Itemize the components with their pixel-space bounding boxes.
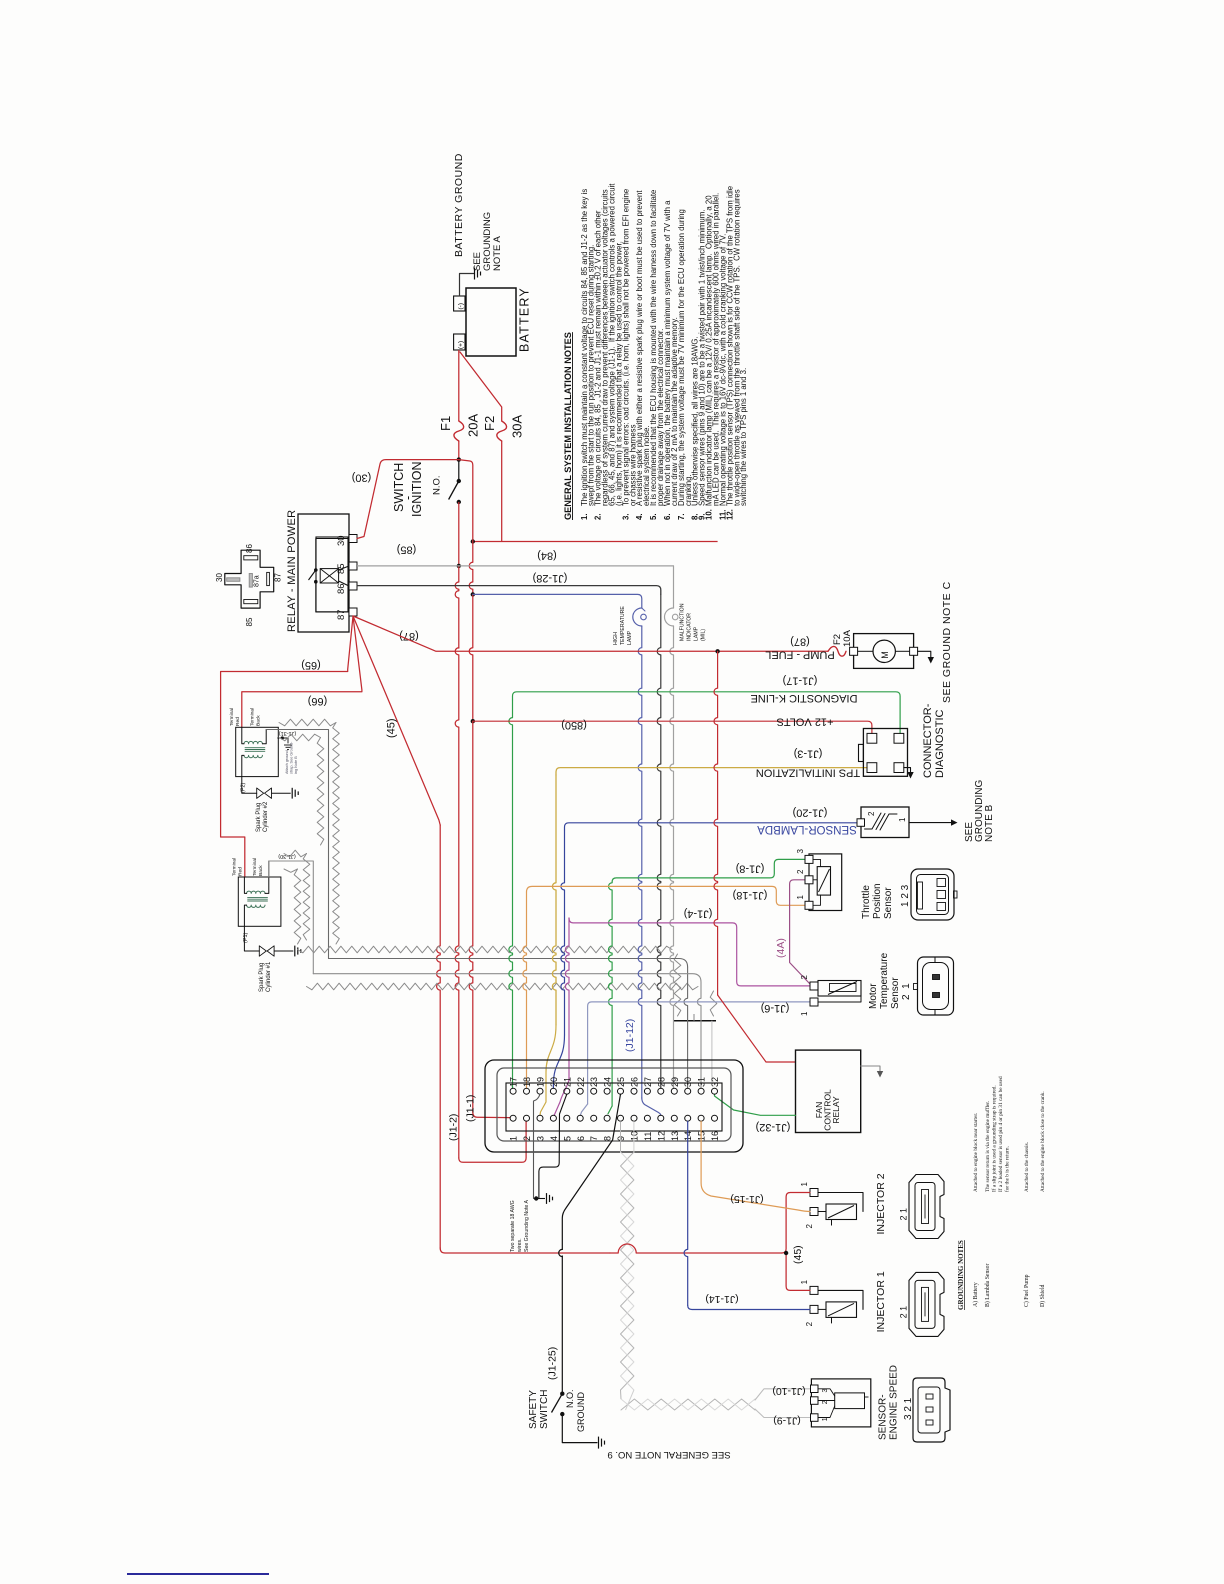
svg-text:Red: Red — [238, 867, 244, 876]
svg-text:NOTE B: NOTE B — [984, 804, 995, 842]
safety switch S2 — [560, 1392, 564, 1396]
svg-text:32: 32 — [710, 1077, 720, 1087]
svg-text:(J1-20): (J1-20) — [793, 807, 828, 819]
svg-text:13: 13 — [670, 1131, 680, 1141]
node F2 junction — [471, 539, 475, 543]
svg-text:Two separate 18 AWG: Two separate 18 AWG — [510, 1200, 516, 1252]
svg-text:3: 3 — [536, 1136, 546, 1141]
svg-text:2: 2 — [805, 1224, 814, 1229]
svg-text:5: 5 — [562, 1136, 572, 1141]
svg-text:25: 25 — [616, 1077, 626, 1087]
svg-text:10.: 10. — [705, 509, 714, 520]
spark plug gap cylinder 2 — [257, 788, 264, 798]
svg-text:ing Note B: ing Note B — [294, 756, 298, 774]
svg-text:8: 8 — [603, 1136, 613, 1141]
svg-text:B) Lambda Sensor: B) Lambda Sensor — [984, 1263, 991, 1307]
svg-text:SEE GROUND NOTE C: SEE GROUND NOTE C — [941, 581, 953, 703]
svg-text:(J1-10): (J1-10) — [772, 1385, 805, 1397]
svg-text:INDICATOR: INDICATOR — [687, 613, 693, 641]
svg-text:27: 27 — [643, 1077, 653, 1087]
svg-text:SENSOR-: SENSOR- — [878, 1394, 889, 1440]
svg-text:Cylinder #2: Cylinder #2 — [263, 801, 269, 832]
svg-text:strap. See Ground-: strap. See Ground- — [290, 741, 294, 774]
switch ignition S1 — [458, 460, 460, 481]
wire shield signal to pin31 — [313, 974, 701, 982]
svg-text:85: 85 — [336, 563, 347, 574]
svg-text:(J1-17): (J1-17) — [783, 675, 818, 687]
wire (J1-6) slate — [588, 1002, 810, 1104]
svg-text:(MIL): (MIL) — [701, 629, 707, 641]
svg-text:BATTERY: BATTERY — [518, 287, 532, 352]
svg-text:(J1-2): (J1-2) — [448, 1114, 460, 1141]
svg-text:RELAY: RELAY — [831, 1096, 841, 1124]
wire K-line green — [513, 692, 901, 734]
svg-text:MALFUNCTION: MALFUNCTION — [680, 603, 686, 641]
svg-text:During starting, the system vo: During starting, the system voltage must… — [677, 209, 686, 506]
wire F2 down to junction — [501, 441, 503, 542]
svg-text:Motor: Motor — [868, 983, 879, 1009]
svg-text:(J1-30): (J1-30) — [278, 853, 296, 859]
battery ground wire — [460, 274, 475, 297]
svg-text:85: 85 — [245, 617, 254, 626]
svg-text:20: 20 — [549, 1077, 559, 1087]
svg-text:LAMP: LAMP — [627, 630, 633, 645]
svg-text:Attached to engine block near: Attached to engine block near starter. — [973, 1113, 979, 1192]
svg-text:INJECTOR 2: INJECTOR 2 — [875, 1173, 887, 1234]
svg-text:Throttle: Throttle — [861, 885, 872, 919]
wire (30) relay to switch — [357, 460, 459, 539]
svg-text:7: 7 — [589, 1136, 599, 1141]
node pump/fan junction — [715, 649, 719, 653]
relay contact — [316, 539, 349, 571]
svg-text:4: 4 — [549, 1136, 559, 1141]
svg-text:BATTERY GROUND: BATTERY GROUND — [453, 153, 465, 257]
svg-text:12.: 12. — [725, 509, 734, 520]
wire (85)/(84) gray — [357, 565, 674, 567]
svg-text:24: 24 — [603, 1077, 613, 1087]
lamp MIL — [665, 608, 674, 626]
svg-text:Sensor: Sensor — [890, 977, 901, 1009]
svg-text:1: 1 — [509, 1136, 519, 1141]
fuse F2 30A — [497, 421, 507, 441]
svg-text:(J1-12): (J1-12) — [624, 1019, 636, 1052]
svg-text:(65): (65) — [301, 659, 321, 671]
svg-text:2.: 2. — [594, 513, 603, 520]
svg-text:1: 1 — [800, 1279, 809, 1284]
node ECU ground join — [534, 1196, 538, 1200]
svg-text:N.O.: N.O. — [565, 1389, 575, 1408]
spark plug gap cylinder 1 — [259, 946, 266, 956]
wire TPS INIT gold — [556, 768, 867, 775]
svg-text:Sensor: Sensor — [883, 887, 894, 919]
svg-text:(45): (45) — [792, 1245, 804, 1264]
svg-text:(J1-14): (J1-14) — [705, 1293, 738, 1305]
ground symbol battery — [474, 268, 476, 280]
wire lambda navy — [565, 823, 862, 830]
svg-text:Terminal: Terminal — [252, 858, 258, 876]
svg-text:SENSOR-LAMBDA: SENSOR-LAMBDA — [757, 823, 857, 835]
wire battery+ to F1 — [458, 350, 460, 421]
svg-text:(P1): (P1) — [243, 932, 249, 943]
svg-text:(J1-8): (J1-8) — [736, 863, 765, 875]
svg-text:PUMP - FUEL: PUMP - FUEL — [765, 649, 834, 661]
svg-text:7.: 7. — [677, 513, 686, 520]
svg-text:(J1-31): (J1-31) — [279, 730, 297, 736]
svg-text:(66): (66) — [308, 695, 328, 707]
battery B1 — [466, 288, 516, 356]
wire (4A) purple — [790, 880, 810, 984]
svg-text:(4A): (4A) — [775, 938, 787, 958]
wire magenta vertical to pin21 — [565, 918, 569, 1080]
svg-text:(J1-18): (J1-18) — [733, 889, 768, 901]
svg-text:SWITCH: SWITCH — [539, 1390, 550, 1429]
wire battery+ diagonal to F2 — [460, 352, 502, 421]
svg-text:(30): (30) — [352, 472, 372, 484]
svg-text:21: 21 — [562, 1077, 572, 1087]
motor temp connector icon — [918, 957, 954, 1015]
svg-text:wires.: wires. — [517, 1238, 523, 1252]
svg-text:2: 2 — [796, 869, 805, 874]
lamp high temperature — [633, 608, 642, 626]
wire gold vertical to pin3 — [552, 775, 556, 1025]
label (J1-32) done above ; bottom blue line — [127, 1573, 269, 1575]
svg-text:The sensor return is via the e: The sensor return is via the engine muff… — [984, 1101, 991, 1192]
node lamp tap — [471, 592, 475, 596]
svg-text:LAMP: LAMP — [694, 626, 700, 641]
svg-text:IGNITION: IGNITION — [410, 461, 424, 517]
svg-text:11: 11 — [643, 1132, 653, 1141]
svg-text:INJECTOR 1: INJECTOR 1 — [875, 1271, 887, 1332]
wire lamp blue return J1-12 — [638, 626, 642, 1098]
wire (J1-15) orange — [701, 1121, 810, 1211]
svg-text:(J1-1): (J1-1) — [465, 1095, 477, 1122]
wire (J1-14) navy — [684, 1121, 688, 1305]
svg-text:(+): (+) — [458, 341, 465, 349]
lambda ground arrow — [909, 822, 951, 824]
svg-text:3 2 1: 3 2 1 — [903, 1397, 914, 1420]
svg-text:5.: 5. — [649, 513, 658, 520]
svg-text:20A: 20A — [466, 414, 481, 437]
relay coil — [320, 569, 338, 583]
svg-text:for the b is the return.: for the b is the return. — [1004, 1146, 1011, 1192]
shield zigzag bus bottom — [307, 983, 699, 990]
svg-text:19: 19 — [536, 1077, 546, 1087]
wire lamp blue feed — [473, 594, 642, 608]
svg-text:26: 26 — [630, 1077, 640, 1087]
svg-text:F2: F2 — [482, 416, 497, 431]
svg-text:SWITCH: SWITCH — [392, 463, 406, 512]
svg-text:87: 87 — [274, 573, 283, 582]
svg-text:Attached to the engine block c: Attached to the engine block close to th… — [1040, 1091, 1046, 1192]
svg-text:Position: Position — [872, 883, 883, 919]
svg-text:Red: Red — [235, 717, 241, 726]
sensor engine speed B3 — [811, 1379, 870, 1427]
svg-text:Terminal: Terminal — [229, 708, 235, 726]
svg-text:TPS INITIALIZATION: TPS INITIALIZATION — [756, 767, 860, 779]
svg-text:Back: Back — [258, 865, 264, 876]
svg-text:31: 31 — [697, 1077, 707, 1087]
twisted pair speed sensor — [620, 1121, 622, 1153]
svg-text:12: 12 — [656, 1131, 666, 1141]
svg-text:6.: 6. — [663, 513, 672, 520]
wire shield signal to pin30 — [329, 959, 688, 968]
svg-text:(J1-4): (J1-4) — [684, 908, 713, 920]
wire orange vertical to pin18 — [523, 892, 527, 1088]
wire red1 down — [455, 566, 459, 648]
svg-text:2: 2 — [800, 975, 809, 980]
svg-text:6: 6 — [576, 1136, 586, 1141]
ECU connector J1 outer — [485, 1060, 743, 1152]
svg-text:2: 2 — [867, 811, 876, 816]
relay pin 87 — [349, 608, 357, 616]
svg-text:(P2): (P2) — [241, 782, 247, 793]
wire fan feed red — [714, 651, 718, 995]
svg-text:22: 22 — [576, 1077, 586, 1087]
svg-text:3: 3 — [796, 849, 805, 854]
svg-text:TEMPERATURE: TEMPERATURE — [620, 606, 626, 645]
wire (87) fuel pump feed — [353, 616, 828, 651]
svg-text:(J1-3): (J1-3) — [794, 748, 823, 760]
relay K1 RELAY - MAIN POWER box — [298, 514, 349, 632]
svg-text:28: 28 — [656, 1077, 666, 1087]
fan relay ground arrow — [861, 1066, 880, 1071]
wire 87 to (66) — [242, 616, 362, 727]
node (45) — [784, 1251, 788, 1255]
speed sensor straight leads — [755, 1389, 811, 1400]
svg-text:GROUNDING NOTES: GROUNDING NOTES — [957, 1240, 965, 1310]
wire safety switch J1-25 — [562, 1094, 620, 1249]
notes text block — [563, 183, 748, 520]
ground symbol ECU — [536, 1198, 545, 1200]
svg-text:F1: F1 — [438, 416, 453, 431]
svg-text:+12 VOLTS: +12 VOLTS — [777, 716, 834, 728]
node 850 tap — [471, 719, 475, 723]
ignition coil T1 — [238, 877, 281, 926]
wire (45) bus to injectors — [610, 1244, 782, 1253]
svg-text:Spark Plug: Spark Plug — [256, 803, 262, 832]
svg-text:10A: 10A — [842, 629, 853, 647]
svg-text:Terminal: Terminal — [232, 858, 238, 876]
svg-text:2 1: 2 1 — [899, 1208, 909, 1221]
svg-text:C) Fuel Pump: C) Fuel Pump — [1023, 1274, 1030, 1307]
svg-text:Back: Back — [256, 715, 262, 726]
svg-text:1 2 3: 1 2 3 — [900, 884, 911, 907]
ground spark plug 1 — [294, 946, 296, 957]
svg-text:switching the wires to TPS pin: switching the wires to TPS pins 1 and 3. — [739, 368, 748, 506]
speed sensor connector icon — [913, 1378, 950, 1442]
motor temperature sensor R3 — [810, 982, 818, 990]
svg-text:NOTE A: NOTE A — [492, 235, 503, 271]
svg-text:N.O.: N.O. — [432, 475, 443, 495]
wire MIL return to pin29 — [670, 626, 674, 1088]
svg-text:3.: 3. — [621, 513, 630, 520]
wire MIL feed from (84) — [673, 566, 675, 608]
svg-text:Spark Plug: Spark Plug — [259, 963, 265, 992]
shield drain stub — [711, 1021, 713, 1082]
svg-text:16: 16 — [710, 1131, 720, 1141]
svg-text:1: 1 — [898, 817, 907, 822]
wire coil1 signal — [269, 861, 314, 974]
throttle position sensor R2 — [809, 854, 842, 911]
svg-text:29: 29 — [670, 1077, 680, 1087]
svg-text:(J1-28): (J1-28) — [533, 572, 568, 584]
coil2 case ground — [278, 738, 288, 743]
shield termination bar — [673, 1020, 716, 1022]
wire red2 branch — [459, 460, 473, 542]
svg-text:SEE GENERAL NOTE NO. 9: SEE GENERAL NOTE NO. 9 — [607, 1449, 730, 1460]
wire pin19 ground hook — [534, 1094, 541, 1198]
svg-text:2: 2 — [522, 1136, 532, 1141]
sensor lambda B2 — [861, 807, 909, 838]
tps internal leads — [813, 859, 821, 866]
ECU pins row 1-16 — [510, 1115, 516, 1121]
svg-text:DIAGNOSTIC: DIAGNOSTIC — [934, 709, 946, 778]
svg-text:30A: 30A — [510, 415, 525, 438]
svg-text:(87): (87) — [790, 636, 810, 648]
svg-text:ENGINE SPEED: ENGINE SPEED — [889, 1365, 900, 1440]
fuse F2 10A — [828, 646, 846, 656]
svg-text:30: 30 — [683, 1077, 693, 1087]
svg-text:(850): (850) — [561, 719, 587, 731]
wire (J1-4) magenta — [569, 918, 810, 986]
wire 87 to (65) — [221, 616, 353, 877]
svg-text:(J1-25): (J1-25) — [547, 1347, 559, 1380]
wire (J1-18) orange — [527, 886, 806, 905]
wire pin21 ground — [536, 1094, 567, 1198]
wire red2 down — [469, 542, 473, 595]
fuel pump M1 — [854, 634, 914, 669]
ignition coil T2 — [236, 727, 279, 776]
svg-text:(84): (84) — [537, 550, 557, 562]
svg-text:CONNECTOR-: CONNECTOR- — [922, 703, 934, 778]
shield zigzag coil1 — [284, 850, 307, 857]
svg-text:87: 87 — [336, 609, 347, 620]
wire J1-28 vertical to pin28 — [657, 594, 661, 1088]
svg-text:2: 2 — [805, 1321, 814, 1326]
svg-text:23: 23 — [589, 1077, 599, 1087]
wire (J1-28) — [357, 586, 661, 595]
wire F2 bus right — [473, 541, 718, 543]
svg-text:Attach ground: Attach ground — [285, 750, 289, 774]
wire green2 vertical to pin8 — [608, 882, 612, 1106]
relay pin 86 — [349, 582, 357, 590]
svg-text:(-): (-) — [458, 303, 465, 310]
svg-text:(J1-6): (J1-6) — [761, 1002, 790, 1014]
svg-text:87a: 87a — [254, 575, 261, 587]
svg-text:Cylinder #1: Cylinder #1 — [266, 961, 272, 992]
svg-text:(45): (45) — [386, 718, 398, 738]
node switch top — [457, 457, 461, 461]
svg-text:A) Battery: A) Battery — [972, 1282, 979, 1307]
injector 1 — [810, 1286, 818, 1294]
pump ground arrow — [918, 651, 931, 657]
ECU pins row 17-32 — [510, 1088, 516, 1094]
wire 87 to (45) diagonal — [353, 616, 440, 825]
pump leads — [858, 650, 873, 652]
wire F1 to switch junction — [458, 441, 460, 460]
svg-text:86: 86 — [336, 583, 347, 594]
connector diagnostic J2 — [863, 729, 907, 777]
relay socket view — [225, 550, 274, 608]
svg-text:86: 86 — [245, 544, 254, 553]
svg-text:GENERAL SYSTEM INSTALLATION NO: GENERAL SYSTEM INSTALLATION NOTES — [563, 332, 573, 520]
wire (J1-8) green — [612, 859, 805, 882]
svg-text:4.: 4. — [635, 513, 644, 520]
tps connector icon — [911, 869, 954, 920]
svg-text:HIGH: HIGH — [613, 632, 619, 645]
svg-text:1: 1 — [800, 1011, 809, 1016]
svg-text:30: 30 — [336, 535, 347, 546]
svg-text:1.: 1. — [580, 513, 589, 520]
svg-text:DIAGNOSTIC K-LINE: DIAGNOSTIC K-LINE — [751, 692, 858, 704]
svg-text:2 1: 2 1 — [901, 983, 912, 1000]
svg-text:10: 10 — [630, 1131, 640, 1141]
fuse F1 20A — [454, 421, 464, 441]
fan control relay K2 — [796, 1050, 861, 1132]
svg-text:(J1-9): (J1-9) — [773, 1415, 800, 1427]
relay pin 30 — [349, 535, 357, 543]
shield zigzag bus top — [298, 946, 673, 953]
svg-text:Attached to the chassis.: Attached to the chassis. — [1024, 1142, 1030, 1192]
wire (45) vertical — [437, 825, 441, 1248]
svg-text:D) Shield: D) Shield — [1039, 1285, 1046, 1307]
wire red1 down to ECU J1-2 — [455, 648, 459, 1158]
wire (J1-32) green — [715, 1094, 796, 1115]
svg-text:(85): (85) — [397, 544, 417, 556]
svg-text:(J1-15): (J1-15) — [730, 1193, 763, 1205]
node 85 tap — [457, 564, 461, 568]
ground spark plug 2 — [291, 788, 293, 799]
wire red2 down to ECU J1-1 — [469, 721, 473, 1112]
wire +12/(850) red — [473, 721, 872, 733]
svg-text:18: 18 — [522, 1077, 532, 1087]
relay pin 85 — [349, 562, 357, 570]
svg-text:30: 30 — [215, 573, 224, 582]
svg-text:If a 2 leaded sensor is used p: If a 2 leaded sensor is used pin 4 or pi… — [997, 1076, 1004, 1192]
wire coil2 signal — [266, 730, 328, 959]
svg-text:17: 17 — [509, 1077, 519, 1087]
svg-text:1: 1 — [796, 895, 805, 900]
svg-text:If a slip joint is used a grou: If a slip joint is used a grounding stra… — [991, 1085, 998, 1192]
diag ground arrow — [904, 768, 911, 772]
wire navy vertical to pin20 — [561, 830, 565, 1035]
svg-text:1: 1 — [800, 1182, 809, 1187]
svg-text:2 1: 2 1 — [899, 1306, 909, 1319]
svg-text:Temperature: Temperature — [879, 952, 890, 1009]
shield zigzag coil2 — [279, 719, 336, 726]
wire K-line green vertical to pin17 — [509, 700, 513, 1088]
injector 2 — [810, 1189, 818, 1197]
svg-text:RELAY - MAIN POWER: RELAY - MAIN POWER — [286, 510, 298, 632]
svg-text:(J1-32): (J1-32) — [756, 1121, 791, 1133]
svg-text:See Grounding Note A: See Grounding Note A — [524, 1200, 530, 1252]
svg-text:M: M — [880, 651, 890, 659]
wire switch to relay coil — [458, 502, 460, 566]
svg-text:GROUND: GROUND — [576, 1392, 586, 1432]
svg-text:SAFETY: SAFETY — [528, 1390, 539, 1429]
svg-text:Terminal: Terminal — [250, 708, 256, 726]
